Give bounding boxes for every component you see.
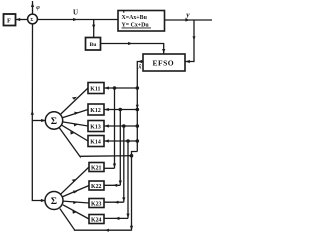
- junction dot row1 tap: [113, 86, 117, 90]
- svg-text:X=Ax+Bu: X=Ax+Bu: [122, 15, 148, 21]
- wire S2 to K23: [63, 201, 89, 203]
- wire bus3 vertical: [123, 126, 125, 202]
- svg-text:φ: φ: [36, 5, 40, 11]
- arrow S2-K22 mid: [73, 190, 77, 193]
- dot over X: [123, 11, 124, 12]
- svg-text:Bu: Bu: [90, 42, 97, 48]
- svg-text:x̂: x̂: [138, 65, 142, 71]
- wire row K21: [104, 167, 115, 169]
- arrow phi up: [31, 3, 34, 7]
- wire row K24: [104, 217, 128, 219]
- wire row K22: [104, 184, 120, 186]
- arrow u right: [73, 18, 77, 21]
- wire long left vertical: [32, 24, 45, 201]
- arrow y right: [185, 18, 189, 21]
- wire bus4 vertical: [127, 141, 129, 218]
- arrow left out of EFSO: [138, 60, 142, 63]
- arrow bus4 down end: [126, 214, 129, 218]
- arrow down to Bu: [92, 25, 95, 29]
- arrow into K13 row: [104, 124, 108, 127]
- block Bu: [86, 38, 101, 51]
- wire row K23: [104, 201, 124, 203]
- svg-text:EFSO: EFSO: [153, 58, 175, 67]
- arrow S1-K13 mid: [74, 123, 78, 126]
- arrow down on bus above K12 row: [136, 105, 139, 109]
- wire row K12: [104, 109, 137, 111]
- svg-text:Σ: Σ: [51, 117, 57, 127]
- arrow S2-K21 mid: [72, 179, 77, 182]
- wire S2 to K22: [62, 186, 89, 197]
- svg-text:K22: K22: [91, 184, 102, 190]
- svg-text:K13: K13: [90, 125, 101, 131]
- arrow left into EFSO right: [185, 60, 189, 63]
- svg-text:K11: K11: [90, 87, 100, 93]
- block K12: [88, 104, 104, 115]
- arrow left on K22 row: [113, 184, 117, 187]
- wire u line S0 to plant: [37, 19, 118, 21]
- wire bus1 vertical: [114, 88, 116, 168]
- wire S2 bottom diagonal: [60, 209, 132, 231]
- junction dot bus-K13: [136, 124, 140, 128]
- svg-text:U: U: [73, 9, 78, 17]
- junction dot bus-K12: [136, 108, 140, 112]
- arrow into K12 row: [104, 108, 108, 111]
- arrow down into EFSO top: [162, 49, 165, 53]
- wire u tap down to Bu: [93, 20, 95, 38]
- svg-text:K23: K23: [91, 202, 102, 208]
- junction dot bus-K11: [136, 86, 140, 90]
- wire sum0 to F: [16, 19, 29, 21]
- junction dot row2 tap: [119, 108, 123, 112]
- arrow bus2 down end: [119, 181, 122, 185]
- arrow left on bottom line: [105, 229, 109, 232]
- arrow down on y feedback: [193, 36, 196, 40]
- summing junction S1: [45, 112, 62, 129]
- wire y feedback down to EFSO right: [185, 20, 194, 62]
- arrow bus5 down end bottom: [130, 226, 133, 230]
- arrow S1-K12 mid: [74, 112, 78, 115]
- wire S2 to K24: [63, 205, 89, 219]
- junction dot bus-K14: [136, 139, 140, 143]
- arrow into K14 row: [104, 139, 108, 142]
- arrow right into S1: [41, 119, 45, 122]
- wire bus jog left: [132, 152, 138, 231]
- svg-text:K21: K21: [91, 166, 102, 172]
- arrow bus1 down end: [113, 164, 116, 168]
- wire xhat bus from EFSO left: [137, 62, 143, 152]
- wire row K13: [104, 125, 137, 127]
- arrow left on K23 row: [114, 201, 118, 204]
- summing junction S2: [45, 192, 63, 210]
- wire S2 to K21: [61, 167, 90, 194]
- block K24: [89, 215, 104, 224]
- arrow into F: [16, 18, 20, 21]
- svg-text:K12: K12: [90, 108, 101, 114]
- block plant state-space: [118, 11, 165, 32]
- summing junction S0: [28, 14, 38, 24]
- arrow S1-K14 mid: [70, 131, 74, 134]
- block K11: [88, 83, 104, 94]
- wire S1 to K13: [63, 122, 88, 126]
- wire y output from plant: [165, 19, 213, 21]
- block EFSO: [143, 54, 185, 71]
- wire S1 to K12: [62, 110, 88, 118]
- wire S1 down-right to bus join: [59, 128, 131, 157]
- arrow S1-K11 mid: [72, 97, 77, 100]
- wire row K11: [104, 87, 137, 89]
- arrow left on K24 row: [115, 217, 119, 220]
- wire Bu output to EFSO top: [101, 44, 164, 55]
- svg-text:Σ: Σ: [51, 197, 57, 207]
- arrow into K11 row: [104, 86, 108, 89]
- wire row K14: [104, 140, 137, 142]
- arrow S2-K23 mid: [73, 201, 77, 204]
- underline plant line2: [122, 27, 152, 30]
- wire phi output up from S0: [32, 1, 34, 14]
- block K14: [88, 136, 104, 147]
- block K22: [89, 181, 104, 190]
- svg-text:y: y: [185, 10, 190, 19]
- block F: [4, 14, 16, 26]
- arrow S2-K24 mid: [73, 211, 77, 214]
- block K13: [88, 121, 104, 132]
- junction dot bus jog: [130, 154, 134, 158]
- svg-text:Σ: Σ: [30, 17, 33, 22]
- arrow Bu out right: [128, 42, 132, 45]
- arrow right into S2: [41, 199, 45, 202]
- wire S1 to K11: [60, 88, 88, 115]
- block K21: [89, 163, 104, 172]
- wire S1 to K14: [61, 125, 88, 141]
- wire bus2 vertical: [119, 110, 121, 186]
- block K23: [89, 199, 104, 208]
- arrow bus3 down end: [122, 197, 125, 201]
- svg-text:K14: K14: [90, 140, 101, 146]
- svg-text:K24: K24: [91, 218, 102, 224]
- junction dot row4 tap: [126, 139, 130, 143]
- junction dot row3 tap: [122, 124, 126, 128]
- wire tee into S1: [32, 120, 45, 122]
- svg-text:F: F: [7, 18, 11, 25]
- arrow up into S0 from below: [31, 110, 34, 114]
